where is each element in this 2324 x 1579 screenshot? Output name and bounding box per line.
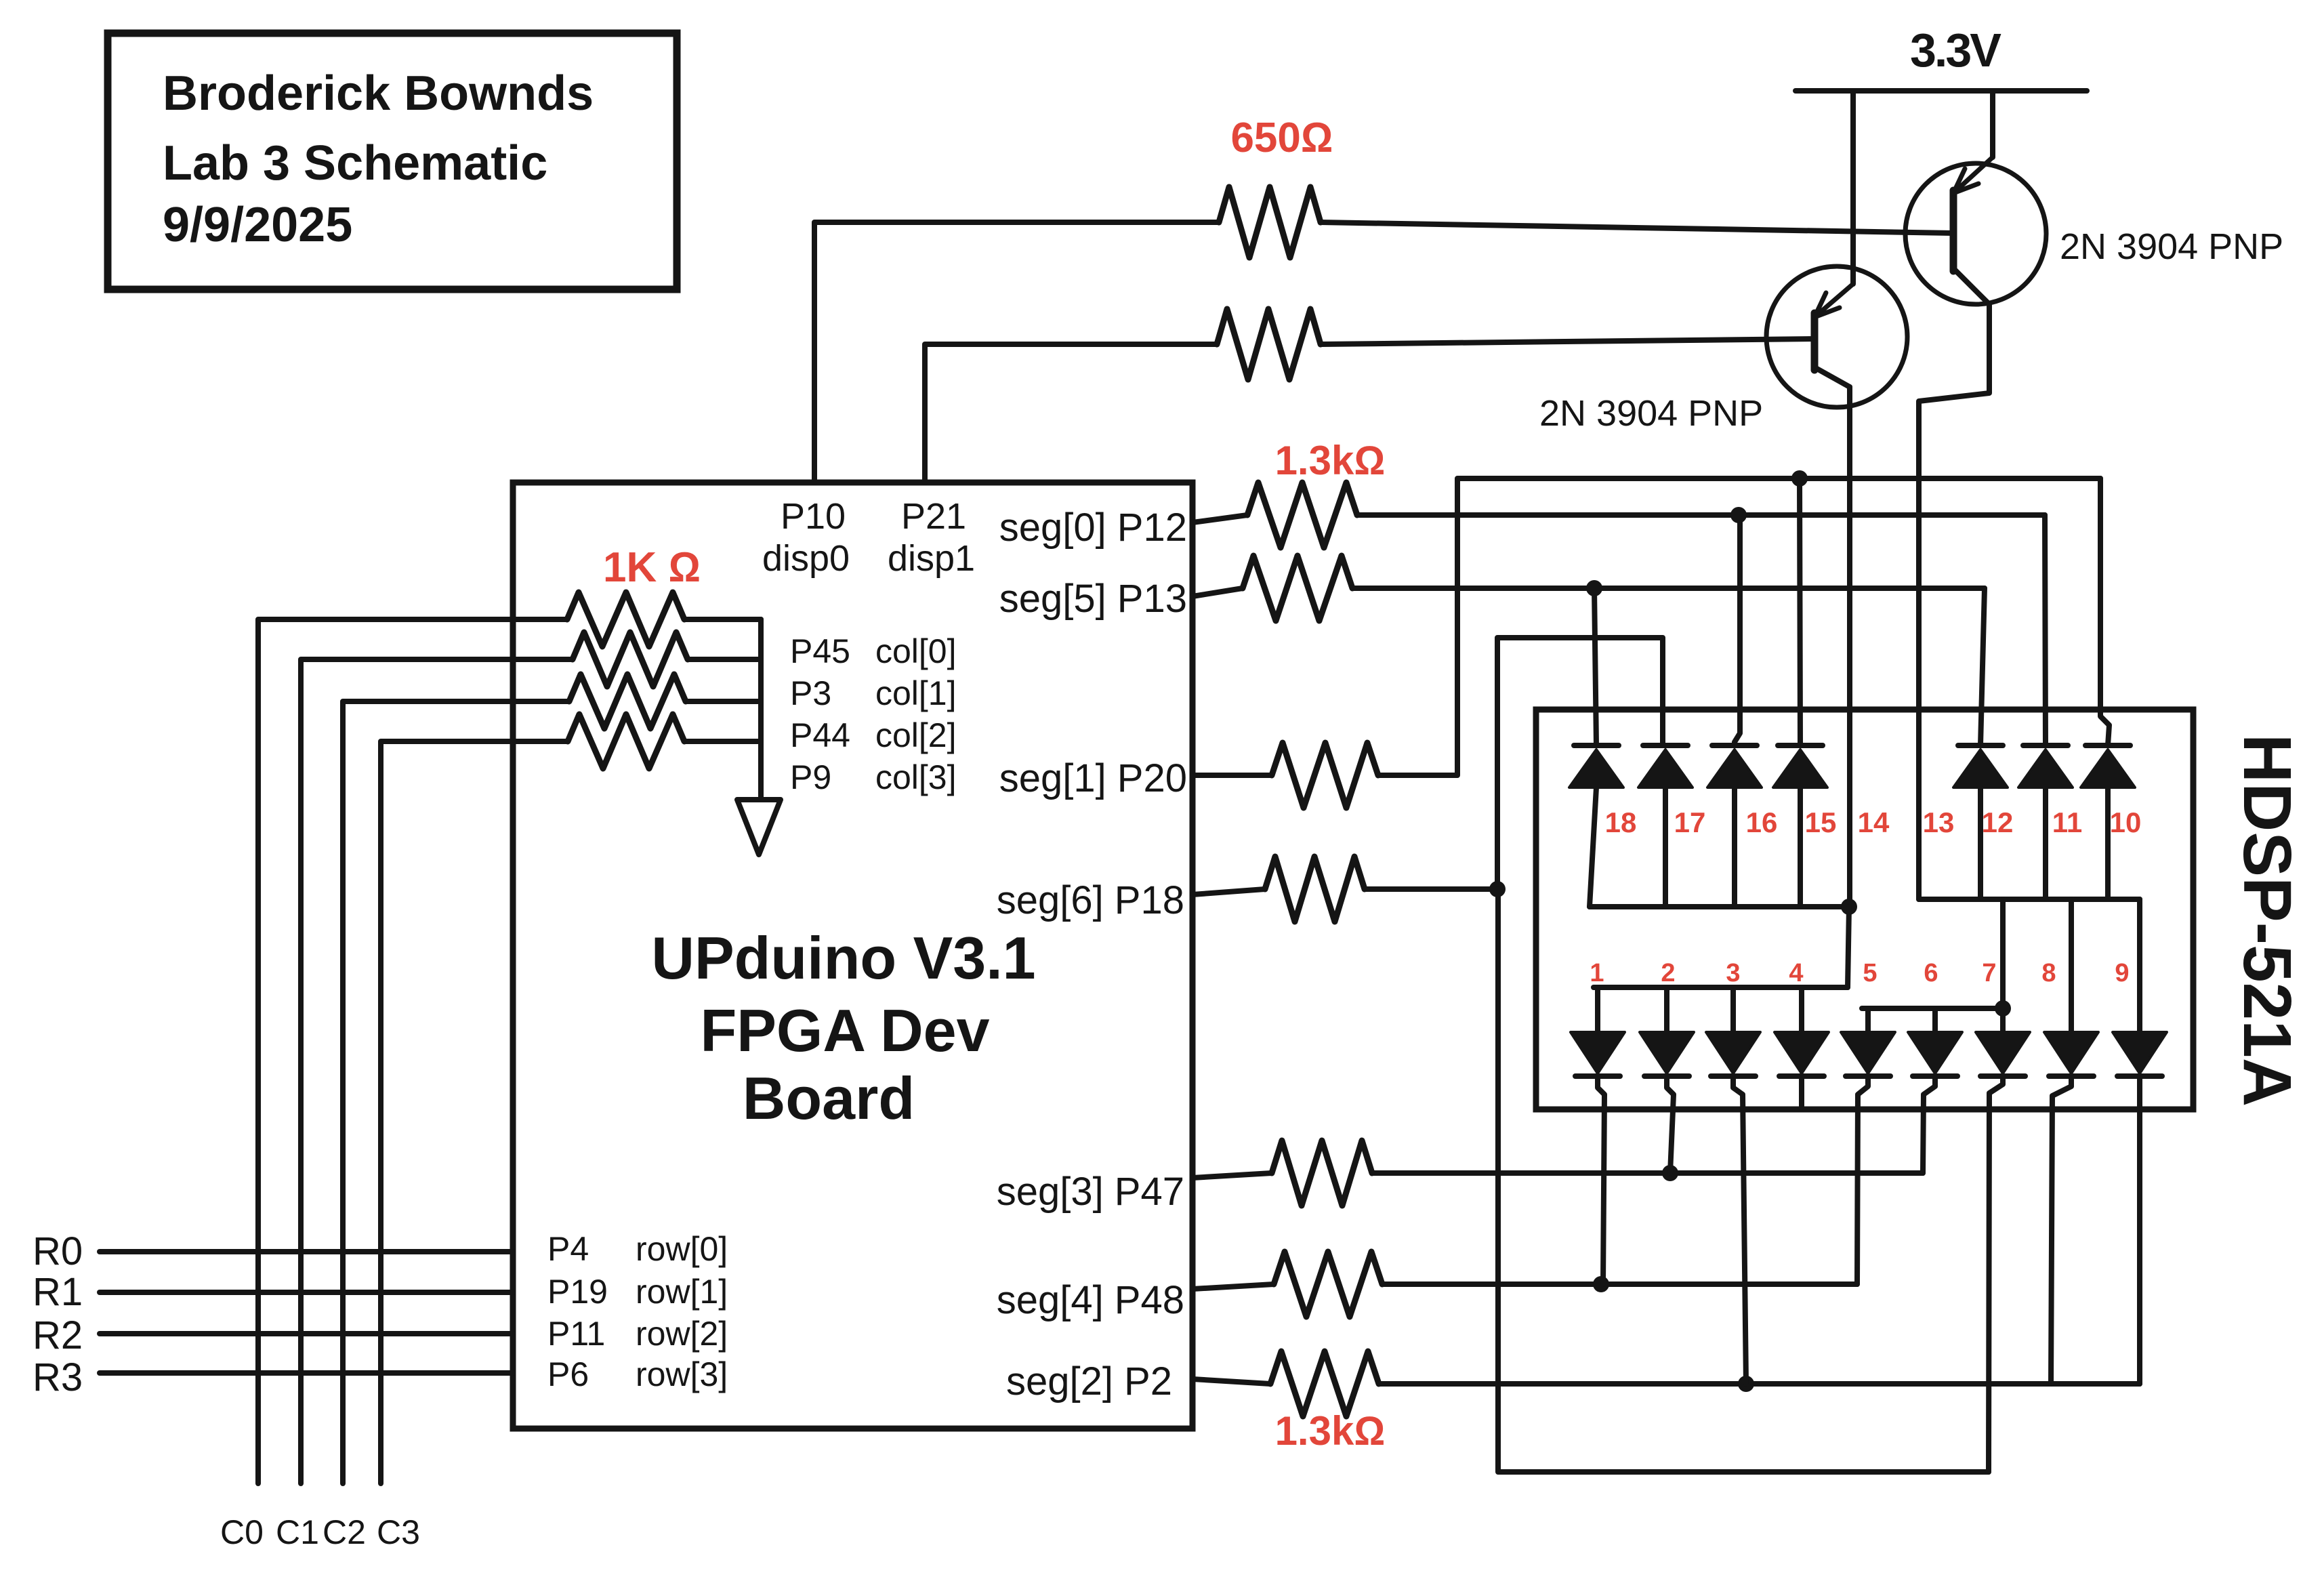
ground symbol xyxy=(737,800,781,855)
svg-text:seg[5] P13: seg[5] P13 xyxy=(999,577,1187,621)
svg-text:row[0]: row[0] xyxy=(636,1230,728,1268)
wire 1K resistor 3 to ground bus xyxy=(684,739,761,744)
wire seg[1] P20 from box xyxy=(1192,773,1272,778)
resistor 1.3k (seg5) xyxy=(1243,556,1352,621)
UPduino row pin labels xyxy=(547,1230,728,1393)
wire LED7 cathode down to seg[6] loop xyxy=(1989,1076,2003,1472)
wire seg[4] to LED 5 xyxy=(1382,1281,1857,1287)
LED diode (up) at x=3019 xyxy=(2018,745,2073,787)
wire seg[1] up and over to pins 15 and 10 xyxy=(1378,478,2100,775)
svg-text:col[2]: col[2] xyxy=(875,716,957,754)
svg-text:HDSP-521A: HDSP-521A xyxy=(2229,734,2305,1107)
svg-text:row[1]: row[1] xyxy=(636,1273,728,1311)
wire LED10 anode to right bus xyxy=(2105,787,2111,899)
svg-text:15: 15 xyxy=(1805,806,1837,838)
wire row R0 xyxy=(100,1249,513,1254)
wire column C1 xyxy=(301,659,573,1483)
LED diode (up) at x=2458 xyxy=(1638,745,1693,787)
wire lower bus to LED3 xyxy=(1730,987,1736,1032)
svg-text:9: 9 xyxy=(2115,959,2129,987)
svg-text:R1: R1 xyxy=(33,1270,83,1314)
resistor 1.3k (seg4) xyxy=(1274,1252,1382,1317)
svg-text:18: 18 xyxy=(1605,806,1637,838)
wire seg[0] end down to pin 11 xyxy=(2045,515,2046,745)
LED diode (up) at x=3111 xyxy=(2081,745,2135,787)
wire seg[1] end down to pin 10 xyxy=(2100,478,2109,745)
wire rail to Q1 emitter xyxy=(1990,91,1995,157)
wire ground bus xyxy=(758,619,764,800)
svg-text:P3: P3 xyxy=(790,674,831,712)
LED diode (down) at x=3057 xyxy=(2044,1032,2098,1076)
svg-text:P6: P6 xyxy=(547,1355,589,1393)
wire LED4 cathode stub xyxy=(1799,1076,1804,1109)
wire seg[6] to junction xyxy=(1365,886,1497,892)
LED diode (up) at x=2923 xyxy=(1953,745,2008,787)
wire lower bus to LED1 xyxy=(1595,987,1600,1032)
wire sub bus to LED6 xyxy=(1932,1008,1938,1032)
svg-text:P10: P10 xyxy=(781,496,846,537)
LED diode (down) at x=2956 xyxy=(1976,1032,2030,1076)
svg-text:R3: R3 xyxy=(33,1355,83,1399)
svg-text:2N 3904 PNP: 2N 3904 PNP xyxy=(2060,226,2283,267)
wire 650 resistor to Q2 base xyxy=(1321,339,1814,344)
resistor 650 ohm (disp1) xyxy=(1217,309,1321,380)
wire sub bus to LED5 xyxy=(1865,1008,1871,1032)
svg-text:2N 3904 PNP: 2N 3904 PNP xyxy=(1539,393,1763,434)
svg-text:3.3V: 3.3V xyxy=(1910,24,2001,77)
wire seg[0] P12 from box xyxy=(1192,515,1247,522)
wire 650 resistor to Q1 base xyxy=(1321,222,1953,233)
wire seg[6] down and around to LED 7 xyxy=(1498,889,1989,1472)
svg-text:R2: R2 xyxy=(33,1313,83,1357)
wire right bus down to LED7 xyxy=(2000,899,2006,1032)
wire LED16 anode to left bus xyxy=(1732,787,1737,907)
LED diode (down) at x=2358 xyxy=(1571,1032,1625,1076)
wire seg[5] P13 from box xyxy=(1192,588,1243,596)
svg-text:R0: R0 xyxy=(33,1229,83,1273)
svg-text:C2: C2 xyxy=(323,1513,366,1551)
svg-text:C0: C0 xyxy=(220,1513,264,1551)
transistor Q1 2N3904 PNP xyxy=(1905,157,2046,304)
svg-text:disp0: disp0 xyxy=(762,538,850,579)
svg-text:P21: P21 xyxy=(901,496,966,537)
wire 1K resistor 2 to ground bus xyxy=(686,699,761,704)
svg-text:1.3kΩ: 1.3kΩ xyxy=(1275,438,1386,483)
svg-text:seg[0] P12: seg[0] P12 xyxy=(999,506,1187,550)
wire LED12 anode to right bus xyxy=(1978,787,1983,899)
title block border xyxy=(108,33,677,289)
wire seg[0] branch to pin 16 xyxy=(1735,515,1740,745)
wire P21 disp1 to 650 resistor xyxy=(925,344,1217,483)
LED diode (up) at x=2560 xyxy=(1707,745,1762,787)
svg-text:seg[6] P18: seg[6] P18 xyxy=(997,878,1184,922)
svg-text:P45: P45 xyxy=(790,632,850,670)
svg-text:C3: C3 xyxy=(377,1513,420,1551)
HDSP-521A display box xyxy=(1536,710,2193,1109)
wire LED17 anode to left bus xyxy=(1663,787,1668,907)
resistor 1.3k (seg0) xyxy=(1247,483,1357,548)
LED diode (down) at x=2659 xyxy=(1775,1032,1829,1076)
wire column C2 xyxy=(343,701,569,1483)
wire right bus down to LED8 xyxy=(2069,899,2074,1032)
wire 1K resistor 0 to ground bus xyxy=(684,617,761,622)
UPduino seg pin labels xyxy=(997,506,1187,1403)
resistor 1K (col 2) xyxy=(569,674,686,729)
wire LED3 cathode down to seg[2] xyxy=(1733,1076,1746,1384)
wire LED5 cathode down to seg[4] corner xyxy=(1857,1076,1868,1284)
svg-text:seg[3] P47: seg[3] P47 xyxy=(997,1170,1184,1214)
svg-text:10: 10 xyxy=(2110,806,2142,838)
UPduino pin labels P10 P21 disp0 disp1 xyxy=(762,496,975,579)
svg-text:col[0]: col[0] xyxy=(875,632,957,670)
wire seg[5] branch to pin 18 xyxy=(1594,588,1596,745)
svg-text:650Ω: 650Ω xyxy=(1230,115,1333,161)
wire pin14 junction down to lower bus xyxy=(1848,907,1849,987)
wire LED1 cathode down to seg[4] xyxy=(1598,1076,1604,1284)
resistor 1.3k (seg2) xyxy=(1270,1351,1379,1416)
wire LED6 cathode down to seg[3] corner xyxy=(1923,1076,1935,1173)
wire seg[0] to display pins 16 and 11 xyxy=(1357,512,2045,518)
svg-text:Lab 3 Schematic: Lab 3 Schematic xyxy=(163,136,547,190)
UPduino board name text xyxy=(651,924,1035,1132)
wire right common anode bus (pin 13) xyxy=(1919,897,2140,902)
wire LED11 anode to right bus xyxy=(2043,787,2048,899)
svg-text:P4: P4 xyxy=(547,1230,589,1268)
svg-text:1K Ω: 1K Ω xyxy=(603,544,701,591)
resistor 1.3k (seg1) xyxy=(1272,743,1378,808)
svg-text:2: 2 xyxy=(1661,959,1675,987)
svg-text:col[3]: col[3] xyxy=(875,758,957,796)
svg-text:disp1: disp1 xyxy=(888,538,975,579)
wire P10 disp0 to 650 resistor xyxy=(814,222,1219,483)
wire row R2 xyxy=(100,1331,513,1336)
svg-text:7: 7 xyxy=(1982,959,1996,987)
wire left common anode bus (pin 14) xyxy=(1590,904,1849,909)
wire LED8 cathode down to seg[2] xyxy=(2051,1076,2071,1384)
svg-text:UPduino V3.1: UPduino V3.1 xyxy=(651,924,1035,991)
svg-text:P19: P19 xyxy=(547,1273,608,1311)
svg-text:11: 11 xyxy=(2052,806,2082,838)
svg-text:col[1]: col[1] xyxy=(875,674,957,712)
wire seg[6] up to pin 17 xyxy=(1497,638,1663,889)
wire right bus down to LED9 xyxy=(2137,899,2142,1032)
resistor 650 ohm (disp0) xyxy=(1219,187,1321,258)
wire Q2 collector to display pin 14 xyxy=(1847,387,1852,907)
svg-text:8: 8 xyxy=(2041,959,2056,987)
wire lower bus to LED4 xyxy=(1799,987,1804,1032)
svg-text:P11: P11 xyxy=(547,1315,605,1353)
UPduino col pin labels xyxy=(790,632,957,796)
LED diode (down) at x=2757 xyxy=(1841,1032,1895,1076)
svg-text:6: 6 xyxy=(1924,959,1938,987)
wire LED18 anode to left bus xyxy=(1590,787,1596,907)
wire Q1 collector to display pin 13 xyxy=(1919,304,1989,899)
title text xyxy=(163,66,594,252)
svg-text:5: 5 xyxy=(1863,959,1877,987)
wire LED2 cathode down to seg[3] xyxy=(1667,1076,1674,1173)
svg-text:Board: Board xyxy=(743,1065,915,1132)
svg-text:seg[1] P20: seg[1] P20 xyxy=(999,756,1187,800)
svg-text:1.3kΩ: 1.3kΩ xyxy=(1275,1408,1386,1454)
wire column C3 xyxy=(381,741,568,1483)
svg-text:3: 3 xyxy=(1726,959,1740,987)
svg-text:17: 17 xyxy=(1674,806,1706,838)
resistor 1K (col 0) xyxy=(567,592,684,647)
wire sub bus to LEDs 5-6 xyxy=(1862,1006,2003,1011)
svg-text:16: 16 xyxy=(1746,806,1778,838)
row labels R0-R3 xyxy=(33,1229,83,1399)
svg-text:seg[2] P2: seg[2] P2 xyxy=(1006,1359,1172,1403)
red pin numbers bottom row xyxy=(1590,959,2129,987)
wire seg[3] to LED 6 xyxy=(1372,1170,1923,1176)
svg-text:C1: C1 xyxy=(276,1513,319,1551)
LED diode (up) at x=2356 xyxy=(1569,745,1623,787)
wire 3.3V rail xyxy=(1796,88,2087,94)
svg-text:P44: P44 xyxy=(790,716,850,754)
svg-text:9/9/2025: 9/9/2025 xyxy=(163,198,352,252)
resistor 1.3k (seg6) xyxy=(1265,857,1365,922)
svg-text:1: 1 xyxy=(1590,959,1604,987)
resistor 1K (col 1) xyxy=(573,632,688,686)
wire lower bus to LED2 xyxy=(1664,987,1669,1032)
svg-text:Broderick Bownds: Broderick Bownds xyxy=(163,66,594,121)
LED diode (down) at x=2856 xyxy=(1908,1032,1962,1076)
wire 1K resistor 1 to ground bus xyxy=(688,657,761,662)
resistor 1K (col 3) xyxy=(568,714,684,768)
column labels C0-C3 xyxy=(220,1513,420,1551)
wire row R3 xyxy=(100,1370,513,1376)
UPduino FPGA dev board box xyxy=(513,483,1192,1429)
svg-text:12: 12 xyxy=(1982,806,2014,838)
svg-text:P9: P9 xyxy=(790,758,831,796)
svg-text:FPGA Dev: FPGA Dev xyxy=(700,997,989,1064)
LED diode (down) at x=3158 xyxy=(2113,1032,2167,1076)
wire seg[6] P18 from box xyxy=(1192,889,1265,895)
LED diode (up) at x=2657 xyxy=(1773,745,1827,787)
svg-text:row[3]: row[3] xyxy=(636,1355,728,1393)
svg-text:14: 14 xyxy=(1858,806,1890,838)
wire seg[1] branch to pin 15 xyxy=(1800,478,1800,745)
wire seg[2] to LEDs 3 8 9 xyxy=(1379,1381,2140,1387)
transistor Q2 2N3904 PNP xyxy=(1766,266,1907,407)
svg-text:13: 13 xyxy=(1923,806,1955,838)
svg-text:4: 4 xyxy=(1789,959,1803,987)
red pin numbers top row xyxy=(1605,806,2142,838)
wire row R1 xyxy=(100,1290,513,1295)
LED diode (down) at x=2460 xyxy=(1640,1032,1694,1076)
wire seg[5] to display pins 18 and 12 xyxy=(1352,586,1985,591)
wire seg[2] P2 from box xyxy=(1192,1379,1270,1384)
wire LED9 cathode down to seg[2] corner xyxy=(2137,1076,2142,1384)
wire seg[5] end down to pin 12 xyxy=(1980,588,1985,745)
svg-text:seg[4] P48: seg[4] P48 xyxy=(997,1278,1184,1322)
svg-text:row[2]: row[2] xyxy=(636,1315,728,1353)
resistor 1.3k (seg3) xyxy=(1272,1141,1372,1206)
wire LED15 anode to left bus xyxy=(1798,787,1803,907)
wire seg[3] P47 from box xyxy=(1192,1173,1272,1178)
wire seg[4] P48 from box xyxy=(1192,1284,1274,1289)
wire column C0 xyxy=(258,619,567,1483)
wire lower-left bus xyxy=(1594,985,1848,990)
wire rail to Q2 emitter xyxy=(1850,91,1856,284)
LED diode (down) at x=2558 xyxy=(1706,1032,1760,1076)
